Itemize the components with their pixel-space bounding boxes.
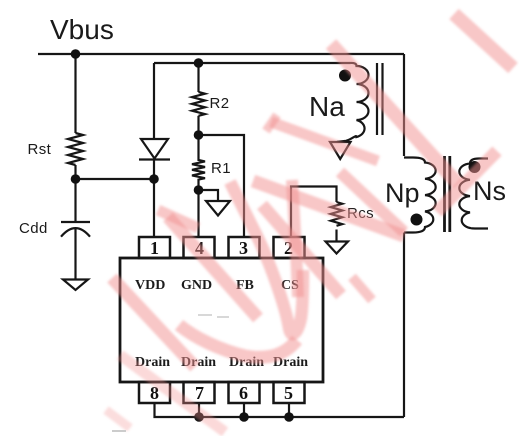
watermark stroke upper bar serif — [266, 115, 277, 131]
pin 3 box — [229, 237, 260, 258]
watermark stroke alpha stem — [112, 278, 195, 367]
node dot Vbus/Rst — [71, 49, 81, 59]
pin 5 box — [274, 382, 305, 403]
watermark stroke beta serif — [158, 210, 198, 228]
wire R2 bottom to node — [197, 116, 199, 135]
watermark stroke corner bottom-left — [106, 410, 130, 428]
resistor Rst — [68, 133, 83, 165]
node dot bus pin5 — [284, 412, 294, 422]
watermark stroke upper bar — [271, 122, 378, 161]
watermark stroke beta stem — [168, 217, 258, 318]
pin 4 box — [184, 237, 215, 258]
phase dot Ns — [469, 161, 481, 173]
wire FB feed — [199, 135, 245, 237]
wire R1 bottom to GND pin — [197, 190, 199, 237]
watermark stroke gamma hook — [230, 182, 303, 334]
watermark stroke U right stem — [292, 180, 298, 297]
svg-text:VDD: VDD — [135, 278, 165, 293]
wire Rst branch from Vbus — [74, 54, 76, 133]
artifact dash inside IC — [198, 315, 229, 317]
node dot rail2/R2 — [194, 58, 204, 68]
wire Cdd bottom — [74, 228, 76, 279]
resistor R1 — [192, 135, 205, 190]
resistor R2 — [192, 92, 205, 116]
winding Np — [404, 158, 436, 233]
wire node VDD horizontal — [76, 178, 155, 180]
watermark stroke alpha2 stem — [120, 355, 225, 432]
winding Ns — [459, 159, 488, 229]
svg-text:Rst: Rst — [28, 141, 52, 158]
svg-text:6: 6 — [239, 383, 248, 403]
wire pin6 stub — [243, 403, 245, 417]
watermark stroke small right — [352, 277, 372, 300]
IC body U1 — [120, 258, 323, 382]
watermark stroke U outer bowl — [179, 325, 297, 357]
wire Cdd branch — [74, 179, 76, 222]
resistor Rcs — [331, 202, 343, 226]
pin 7 box — [184, 382, 215, 403]
wire Vbus top rail — [38, 53, 404, 55]
winding Na — [337, 63, 369, 142]
wire Rcs bottom — [335, 230, 337, 242]
pin 2 box — [274, 237, 305, 258]
phase dot Np — [411, 214, 423, 226]
svg-text:Vbus: Vbus — [50, 14, 114, 45]
watermark stroke wedge edge — [340, 172, 404, 232]
ground arrow at R1 — [199, 190, 231, 216]
svg-text:Na: Na — [309, 91, 345, 122]
svg-text:3: 3 — [239, 238, 248, 258]
wire R2 top — [197, 63, 199, 92]
svg-text:Np: Np — [385, 178, 420, 208]
wire pin7 stub — [198, 403, 200, 417]
wire CS to Rcs — [291, 187, 337, 238]
svg-text:R1: R1 — [211, 160, 231, 177]
node dot R2/R1 FB — [194, 130, 204, 140]
ground under Cdd — [63, 280, 88, 291]
core bars Na — [377, 63, 383, 135]
watermark stroke long diagonal — [331, 44, 458, 184]
pin 6 box — [229, 382, 260, 403]
svg-text:Ns: Ns — [473, 176, 506, 206]
watermark stroke slash — [437, 151, 497, 212]
wire pin5 stub — [288, 403, 290, 417]
node dot R1 bottom — [194, 185, 204, 195]
artifact dash below pin 8 — [112, 430, 126, 432]
svg-text:Cdd: Cdd — [19, 220, 48, 237]
node dot diode/node — [149, 174, 159, 184]
svg-text:R2: R2 — [210, 95, 230, 112]
wire Rst bottom — [74, 165, 76, 179]
svg-text:1: 1 — [150, 238, 159, 258]
watermark stroke shallow bar — [253, 181, 404, 236]
node dot bus pin7 — [194, 412, 204, 422]
ground arrow under Na — [330, 142, 351, 159]
phase dot Na — [339, 70, 351, 82]
wire Np bottom down — [403, 233, 405, 418]
wire second rail (diode/R2/Na) — [154, 62, 350, 64]
watermark stroke corner — [454, 14, 513, 68]
wire right vertical to Np — [403, 54, 405, 156]
capacitor Cdd — [61, 222, 90, 237]
core bars Np/Ns — [445, 156, 450, 232]
watermark stroke delta stem — [262, 205, 341, 295]
ground under Rcs — [326, 242, 349, 254]
pin 1 box — [139, 237, 170, 258]
svg-text:7: 7 — [195, 383, 204, 403]
svg-text:5: 5 — [284, 383, 293, 403]
node dot Rst/node — [71, 174, 81, 184]
wire drain bus — [155, 403, 405, 417]
watermark — [106, 14, 513, 432]
svg-text:GND: GND — [181, 278, 212, 293]
diode D1 — [139, 63, 170, 237]
node dot bus pin6 — [239, 412, 249, 422]
pin 8 box — [139, 382, 170, 403]
